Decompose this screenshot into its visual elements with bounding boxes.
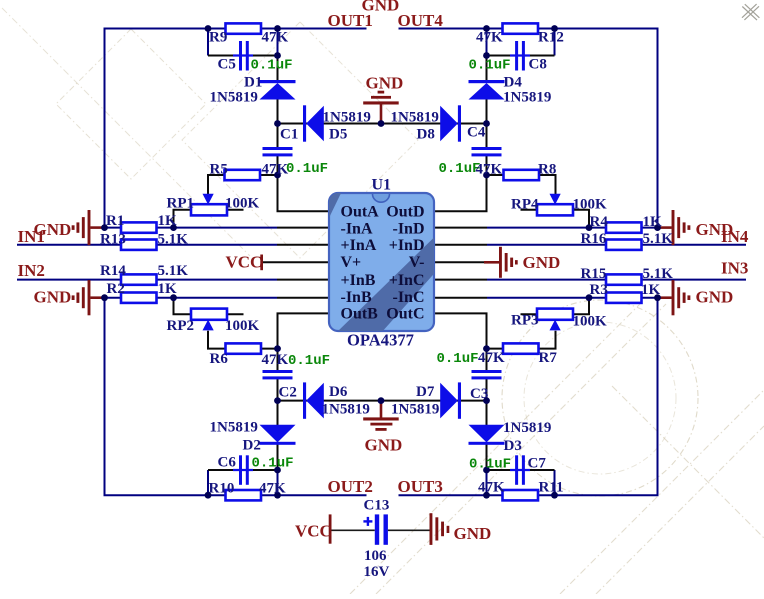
resistor R16 <box>606 240 642 250</box>
diode D4 1N5819 <box>469 80 505 83</box>
wire +InB pin stub <box>277 279 329 281</box>
wire D2 bar to C6 node <box>277 444 279 470</box>
wire RP1 right terminal stub <box>227 209 244 211</box>
resistor R10 <box>226 490 262 500</box>
svg-text:47K: 47K <box>259 481 286 497</box>
wire OutC corner <box>434 313 487 348</box>
svg-text:100K: 100K <box>573 197 608 213</box>
wire C6 loop left leg <box>207 470 209 495</box>
resistor R12 <box>503 23 539 33</box>
wire RP2 left terminal to -InB node <box>174 298 192 315</box>
potentiometer RP2 wiper arrow <box>203 320 214 331</box>
wire +InC row to IN3 <box>487 279 746 281</box>
capacitor C8 plates <box>515 41 518 71</box>
svg-text:R13: R13 <box>100 232 126 248</box>
svg-text:1K: 1K <box>641 282 661 298</box>
svg-text:R7: R7 <box>539 350 558 366</box>
wire IN2 to +InB row <box>17 279 277 281</box>
svg-text:+InA: +InA <box>341 237 377 254</box>
wire -InC pin stub <box>434 297 487 299</box>
svg-text:100K: 100K <box>225 318 260 334</box>
resistor R9 <box>226 23 262 33</box>
svg-text:-InC: -InC <box>392 289 424 306</box>
svg-text:0.1uF: 0.1uF <box>252 456 294 472</box>
svg-text:C8: C8 <box>529 57 547 73</box>
svg-text:+InB: +InB <box>341 272 376 289</box>
wire -InA row <box>105 227 278 229</box>
capacitor C5 leads <box>233 54 253 56</box>
svg-text:-InA: -InA <box>341 220 373 237</box>
resistor R3 <box>606 293 642 303</box>
ground symbol <box>658 226 672 229</box>
watermark diagonal band bottom-right <box>350 304 640 594</box>
ground symbol <box>90 226 104 229</box>
resistor R8 <box>504 170 540 180</box>
svg-text:+InC: +InC <box>389 272 425 289</box>
svg-text:0.1uF: 0.1uF <box>288 353 330 369</box>
svg-text:1N5819: 1N5819 <box>391 402 439 418</box>
svg-text:R8: R8 <box>538 161 556 177</box>
watermark circle bottom-right <box>502 300 698 496</box>
svg-text:106: 106 <box>364 548 387 564</box>
wire C8 loop left leg <box>486 29 488 56</box>
svg-text:OutC: OutC <box>386 306 424 323</box>
capacitor C4 plates <box>472 147 502 150</box>
svg-text:5.1K: 5.1K <box>158 263 189 279</box>
watermark diagonal dash line <box>2 8 250 256</box>
svg-text:IN1: IN1 <box>18 227 45 246</box>
wire D3 bar to C7 node <box>486 444 488 470</box>
wire D4 anode chain <box>486 56 488 82</box>
svg-text:47K: 47K <box>262 352 289 368</box>
junction dots <box>205 25 212 32</box>
svg-text:GND: GND <box>366 74 404 93</box>
wire C5 loop left leg <box>207 29 209 56</box>
svg-text:D8: D8 <box>417 126 435 142</box>
svg-text:R6: R6 <box>210 351 229 367</box>
svg-text:47K: 47K <box>476 30 503 46</box>
wire V+ pin wire <box>263 261 329 263</box>
svg-text:R2: R2 <box>107 281 125 297</box>
svg-text:RP3: RP3 <box>511 313 539 329</box>
svg-text:5.1K: 5.1K <box>643 231 674 247</box>
svg-text:RP1: RP1 <box>167 196 195 212</box>
svg-text:V+: V+ <box>341 254 362 271</box>
chip notch <box>373 194 390 202</box>
svg-text:D5: D5 <box>329 126 347 142</box>
wire -InD pin stub <box>434 227 487 229</box>
resistor R6 <box>226 343 262 353</box>
wire C8 loop right leg <box>554 29 556 56</box>
wire D1 anode chain <box>277 56 279 82</box>
diode D8 1N5819 <box>458 105 461 141</box>
wire left rail top and OUT1 row <box>105 29 226 228</box>
watermark X strokes bottom-right corner <box>560 390 764 594</box>
wire -InC row <box>487 297 658 299</box>
wire IN1 to +InA row <box>17 244 277 246</box>
wire V- pin wire <box>434 261 484 263</box>
potentiometer RP4 wiper arrow <box>550 194 561 205</box>
svg-text:1N5819: 1N5819 <box>322 402 370 418</box>
wire C6 branch <box>208 469 278 471</box>
svg-text:+InD: +InD <box>389 237 425 254</box>
wire -InA pin stub <box>277 227 329 229</box>
watermark diamond outline upper-middle <box>182 22 418 258</box>
svg-text:100K: 100K <box>225 196 260 212</box>
watermark diamond outline top-left <box>56 29 206 179</box>
capacitor C3 plates <box>472 370 502 373</box>
wire RP2 right terminal stub <box>227 313 244 315</box>
svg-text:R15: R15 <box>581 266 607 282</box>
svg-text:0.1uF: 0.1uF <box>469 456 511 472</box>
svg-text:0.1uF: 0.1uF <box>437 351 479 367</box>
potentiometer RP4 <box>537 204 573 215</box>
svg-text:5.1K: 5.1K <box>643 266 674 282</box>
ground symbol at V- pin <box>484 261 499 264</box>
svg-text:1K: 1K <box>643 214 663 230</box>
svg-text:47K: 47K <box>262 30 289 46</box>
svg-text:C2: C2 <box>279 385 297 401</box>
wire C7 loop left leg <box>486 470 488 495</box>
potentiometer RP1 wiper arrow <box>203 194 214 205</box>
svg-text:GND: GND <box>696 287 734 306</box>
wire D1 cathode to C1 <box>277 98 279 148</box>
svg-text:0.1uF: 0.1uF <box>251 57 293 73</box>
ground symbol top center <box>380 105 383 124</box>
resistor R14 <box>121 274 157 284</box>
wire C2 to D2 row <box>277 379 279 426</box>
resistor R5 <box>225 170 261 180</box>
svg-text:0.1uF: 0.1uF <box>469 57 511 73</box>
wire C3 to D3 row <box>486 379 488 426</box>
wire D5-D8 row <box>278 123 487 125</box>
resistor R15 <box>606 274 642 284</box>
capacitor C7 leads <box>510 469 530 471</box>
wire C7 branch <box>487 469 555 471</box>
close icon top-right <box>742 7 757 21</box>
svg-text:OUT4: OUT4 <box>398 11 444 30</box>
svg-text:D4: D4 <box>504 75 523 91</box>
wire OutB node to C2 <box>277 349 279 371</box>
wire R6 right link <box>261 348 278 350</box>
wire OutB corner <box>278 313 330 348</box>
wire -InD row <box>487 227 658 229</box>
resistor R7 <box>503 343 539 353</box>
svg-text:C13: C13 <box>364 498 390 514</box>
svg-text:V-: V- <box>409 254 425 271</box>
svg-text:R1: R1 <box>106 213 124 229</box>
svg-text:D7: D7 <box>416 384 435 400</box>
svg-text:R5: R5 <box>210 161 228 177</box>
svg-text:C4: C4 <box>467 125 486 141</box>
svg-text:47K: 47K <box>262 161 289 177</box>
svg-text:C6: C6 <box>218 455 237 471</box>
wire R8 right to RP4 wiper <box>539 175 556 194</box>
svg-text:OPA4377: OPA4377 <box>347 330 414 349</box>
wire OutC node to C3 <box>486 349 488 371</box>
diode D2 1N5819 <box>260 425 296 443</box>
resistor R1 <box>121 222 157 232</box>
svg-text:OutA: OutA <box>341 204 380 221</box>
potentiometer RP1 <box>191 204 227 215</box>
wire RP4 left terminal stub <box>521 209 538 211</box>
svg-text:OUT2: OUT2 <box>328 477 373 496</box>
wire +InA pin stub <box>277 244 329 246</box>
svg-text:OUT1: OUT1 <box>328 11 373 30</box>
svg-text:GND: GND <box>454 524 492 543</box>
svg-text:47K: 47K <box>478 480 505 496</box>
svg-text:-InD: -InD <box>392 220 424 237</box>
wire +InC pin stub <box>434 279 487 281</box>
wire OUT2 row right of R10 <box>261 494 367 496</box>
svg-text:R9: R9 <box>209 30 227 46</box>
potentiometer RP2 <box>191 309 227 320</box>
wire R8 left link <box>487 174 504 176</box>
wire +InD pin stub <box>434 244 487 246</box>
svg-text:U1: U1 <box>372 177 392 194</box>
svg-text:1N5819: 1N5819 <box>210 90 258 106</box>
wire C13 to GND <box>388 529 430 531</box>
wire R5 left to RP1 wiper <box>208 175 225 194</box>
wire RP3 wiper to R7 <box>539 331 556 349</box>
svg-text:IN2: IN2 <box>18 261 45 280</box>
svg-text:VCC: VCC <box>226 253 263 272</box>
wire C5 loop right leg <box>277 29 279 56</box>
svg-text:C1: C1 <box>280 126 298 142</box>
watermark band across chip <box>327 191 436 333</box>
resistor R2 <box>121 293 157 303</box>
svg-text:16V: 16V <box>364 564 390 580</box>
ground symbol bottom center <box>380 401 383 418</box>
svg-text:OutB: OutB <box>341 306 379 323</box>
wire OUT4 row to right rail <box>538 29 658 228</box>
capacitor C7 plates <box>515 455 518 485</box>
svg-text:C5: C5 <box>218 57 236 73</box>
wire C4 to OutD corner <box>434 156 487 211</box>
svg-text:1N5819: 1N5819 <box>503 90 551 106</box>
svg-text:GND: GND <box>34 288 72 307</box>
capacitor C8 leads <box>510 54 530 56</box>
svg-text:OutD: OutD <box>386 204 424 221</box>
svg-text:D2: D2 <box>243 438 261 454</box>
svg-text:OUT3: OUT3 <box>398 477 443 496</box>
capacitor C5 plates <box>239 41 242 71</box>
wire +InD row to IN4 <box>487 244 746 246</box>
svg-text:R14: R14 <box>100 263 126 279</box>
svg-text:1K: 1K <box>158 281 178 297</box>
svg-text:GND: GND <box>365 436 403 455</box>
svg-text:RP2: RP2 <box>167 318 195 334</box>
diode D5 1N5819 <box>303 105 306 141</box>
power symbol VCC at V+ pin <box>260 255 263 271</box>
svg-text:1N5819: 1N5819 <box>210 420 258 436</box>
svg-text:R11: R11 <box>539 480 564 496</box>
svg-text:0.1uF: 0.1uF <box>286 161 328 177</box>
wire RP3 left terminal stub <box>521 313 538 315</box>
svg-text:C7: C7 <box>528 456 547 472</box>
svg-text:RP4: RP4 <box>511 197 539 213</box>
svg-text:47K: 47K <box>478 350 505 366</box>
wire OUT3 row left of R11 <box>399 494 504 496</box>
diode D6 1N5819 <box>303 382 306 418</box>
svg-text:1K: 1K <box>158 213 178 229</box>
wire RP4 right terminal to -InD node <box>573 210 589 228</box>
capacitor C6 plates <box>239 455 242 485</box>
diode D7 1N5819 <box>458 382 461 418</box>
svg-text:IN4: IN4 <box>721 227 749 246</box>
wire C7 loop right leg <box>554 470 556 495</box>
capacitor C13 electrolytic <box>375 514 379 544</box>
svg-text:47K: 47K <box>476 161 503 177</box>
capacitor C2 plates <box>263 370 293 373</box>
wire C8 branch <box>487 55 555 57</box>
resistor R13 <box>121 240 157 250</box>
svg-text:IN3: IN3 <box>721 259 748 278</box>
svg-text:R4: R4 <box>590 214 609 230</box>
svg-text:D6: D6 <box>329 384 348 400</box>
wire RP2 wiper to R6 <box>208 331 226 349</box>
svg-text:D1: D1 <box>244 75 262 91</box>
svg-text:D3: D3 <box>504 438 522 454</box>
svg-text:C3: C3 <box>470 386 488 402</box>
wire C5 branch <box>208 55 278 57</box>
wire RP1 left terminal to -InA node <box>174 210 192 228</box>
resistor R11 <box>503 490 539 500</box>
svg-text:R16: R16 <box>581 231 607 247</box>
svg-text:R3: R3 <box>590 282 608 298</box>
svg-text:1N5819: 1N5819 <box>391 109 439 125</box>
ground symbol <box>90 296 104 299</box>
svg-text:5.1K: 5.1K <box>158 232 189 248</box>
capacitor C6 leads <box>233 469 253 471</box>
capacitor C1 plates <box>263 147 293 150</box>
svg-text:100K: 100K <box>573 314 608 330</box>
wire -InB pin stub <box>277 297 329 299</box>
ground symbol <box>658 296 672 299</box>
svg-text:VCC: VCC <box>295 522 332 541</box>
svg-text:1N5819: 1N5819 <box>503 420 551 436</box>
potentiometer RP3 <box>537 309 573 320</box>
potentiometer RP3 wiper arrow <box>550 320 561 331</box>
ground symbol at C13 <box>430 513 433 545</box>
svg-text:GND: GND <box>523 253 561 272</box>
wire D4 cathode to C4 <box>486 98 488 148</box>
svg-text:R10: R10 <box>209 481 235 497</box>
svg-text:0.1uF: 0.1uF <box>439 161 481 177</box>
wire -InB row <box>105 297 278 299</box>
wire left rail bottom and OUT2 row <box>105 298 226 496</box>
svg-text:1N5819: 1N5819 <box>323 109 371 125</box>
wire C1 to OutA corner <box>278 156 330 211</box>
power symbol VCC at C13 <box>329 514 332 543</box>
wire C6 loop right leg <box>277 470 279 495</box>
diode D3 1N5819 <box>469 425 505 443</box>
wire OUT4 row left of R12 <box>399 28 504 30</box>
wire OUT1 row right of R9 <box>261 28 367 30</box>
wire VCC to C13 <box>332 529 375 531</box>
resistor R4 <box>606 222 642 232</box>
svg-text:-InB: -InB <box>341 289 372 306</box>
diode D1 1N5819 <box>260 80 296 83</box>
wire RP3 right terminal to -InC node <box>573 298 589 315</box>
wire OUT3 row to right rail <box>538 298 658 496</box>
svg-text:R12: R12 <box>538 30 564 46</box>
wire R7 left link <box>487 348 504 350</box>
wire D6-D7 row <box>278 400 487 402</box>
wire R5 right link <box>261 174 278 176</box>
